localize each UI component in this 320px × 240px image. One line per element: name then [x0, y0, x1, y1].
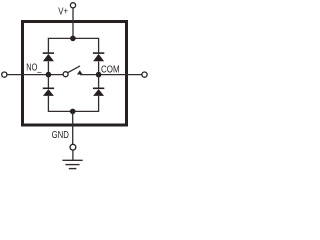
- svg-text:GND: GND: [52, 129, 70, 141]
- terminal V+: [70, 3, 75, 8]
- wire GND node to GND terminal: [72, 111, 74, 144]
- wire V+ terminal to top rail: [72, 8, 74, 39]
- node COM junction: [96, 72, 102, 78]
- terminal COM: [142, 72, 147, 77]
- node NO junction: [46, 72, 52, 78]
- switch SW (open, pivot circle, arm, contact arrow): [63, 66, 83, 77]
- terminal NO: [2, 72, 7, 77]
- wire top rail: [48, 38, 98, 52]
- diode top-left (NO to V+): [43, 53, 54, 73]
- diode bottom-right (GND to COM): [93, 88, 104, 96]
- wire switch contact to COM terminal: [80, 74, 142, 76]
- svg-text:COM_: COM_: [101, 63, 124, 75]
- svg-text:V+: V+: [58, 6, 68, 18]
- wire GND rail: [48, 96, 98, 112]
- svg-text:NO_: NO_: [26, 62, 41, 74]
- diode top-right (COM to V+): [93, 53, 104, 73]
- ground (earth symbol): [62, 160, 82, 168]
- wire COM node down to lower diode: [98, 76, 100, 88]
- wire NO terminal to switch pivot: [7, 74, 63, 76]
- node GND junction: [70, 109, 76, 115]
- wire GND terminal to earth: [72, 150, 74, 160]
- terminal GND: [70, 144, 76, 150]
- device outline box: [23, 22, 127, 126]
- diode bottom-left (GND to NO): [43, 88, 54, 96]
- node V+ junction: [70, 36, 76, 42]
- wire NO node down to lower diode: [47, 76, 49, 88]
